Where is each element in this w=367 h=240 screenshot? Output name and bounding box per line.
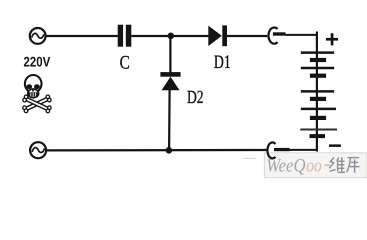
plug pin [273,32,286,35]
plus sign [326,33,338,45]
capacitor C [118,25,132,47]
diode D1 [208,25,227,46]
wire: D2 anode down to bottom node [168,90,171,150]
node junction top (D2 tap) [168,33,175,40]
svg-text:220V: 220V [24,53,51,69]
bottom wire [47,149,268,152]
wire: top node down to D2 cathode [169,36,171,73]
node junction bottom [166,147,173,154]
diode D2 (cathode up) [160,72,180,90]
bone lower-left to upper-right [22,94,52,113]
svg-text:D2: D2 [187,88,204,108]
nose [32,89,35,92]
wire: corner down into battery [316,32,318,152]
plug pin [274,148,290,151]
svg-text:D1: D1 [214,52,231,73]
wire: connector to battery + [286,34,319,36]
long plates [301,51,334,54]
mouth with teeth [28,92,38,96]
wire: capacitor to D1 [131,35,208,37]
connector top (plug/jack) [268,28,318,44]
watermark hanzi wei [329,157,345,173]
bone upper-left to lower-right [22,94,52,113]
svg-text:C: C [120,53,130,74]
watermark hyphen [325,164,330,166]
AC source terminal bottom-left [30,142,46,158]
watermark box WeeQoo weikeqoo [243,153,367,178]
connector bottom (plug/jack) [267,142,318,158]
AC source terminal top-left [30,28,46,44]
wire: top source to capacitor [46,35,118,37]
short thick plates [310,58,326,62]
skull and crossbones (danger high voltage) [22,75,52,113]
jack socket arc [267,142,275,158]
minus sign [329,144,341,147]
battery stack GB [300,53,337,130]
eyes [26,84,32,89]
jack socket arc [268,28,277,44]
svg-text:oo: oo [306,155,322,176]
wire: connector to battery - [290,149,319,151]
wire: D1 to top connector [227,35,267,37]
watermark hanzi ku [347,158,360,173]
skull head [25,75,42,93]
